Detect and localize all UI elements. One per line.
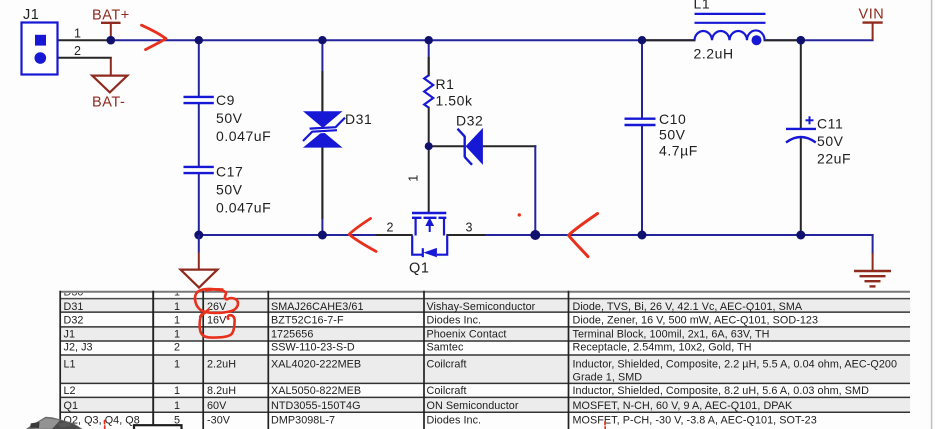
svg-text:Q1: Q1	[64, 400, 79, 412]
svg-text:XAL5050-822MEB: XAL5050-822MEB	[271, 385, 361, 397]
svg-text:22uF: 22uF	[817, 151, 851, 167]
red dot annotation	[518, 213, 521, 216]
resistor R1	[424, 75, 473, 108]
svg-text:-30V: -30V	[207, 414, 231, 426]
svg-text:D31: D31	[345, 111, 372, 127]
red arrow at BAT+	[142, 25, 167, 49]
ground (right earth GND)	[854, 253, 891, 286]
inductor L1	[694, 0, 766, 62]
svg-text:2.2uH: 2.2uH	[207, 359, 236, 371]
svg-text:Vishay-Semiconductor: Vishay-Semiconductor	[427, 301, 536, 313]
power flag BAT+	[92, 8, 130, 41]
wire: top rail (net)	[111, 39, 695, 41]
svg-text:2.2uH: 2.2uH	[694, 46, 734, 62]
svg-text:L1: L1	[694, 0, 711, 12]
svg-text:MOSFET, N-CH, 60 V, 9 A, AEC-Q: MOSFET, N-CH, 60 V, 9 A, AEC-Q101, DPAK	[573, 400, 794, 412]
row fills	[60, 299, 910, 311]
svg-text:3: 3	[466, 221, 474, 235]
connector J1	[22, 7, 82, 75]
svg-text:50V: 50V	[817, 133, 844, 149]
wire: R1 to node	[428, 108, 430, 146]
svg-text:0.047uF: 0.047uF	[216, 200, 271, 216]
svg-text:Inductor, Shielded, Composite,: Inductor, Shielded, Composite, 8.2 uH, 5…	[573, 385, 870, 397]
svg-text:C11: C11	[817, 116, 843, 132]
svg-text:NTD3055-150T4G: NTD3055-150T4G	[271, 400, 361, 412]
wire: node to D32	[429, 145, 464, 147]
wire: gate stem	[428, 146, 430, 213]
J1 body	[22, 23, 58, 75]
svg-text:Phoenix Contact: Phoenix Contact	[427, 329, 507, 341]
wire: J1 pin2 stub	[46, 57, 111, 59]
wire: L1 left stub	[645, 39, 695, 41]
junction: top rail at C11/VIN branch	[797, 36, 806, 45]
svg-text:Grade 1, SMD: Grade 1, SMD	[573, 372, 643, 384]
screen right edge line	[931, 0, 933, 429]
white box bottom edge	[134, 425, 182, 429]
svg-text:Diodes Inc.: Diodes Inc.	[427, 315, 482, 327]
dark photo blob bottom-left	[26, 417, 82, 429]
svg-text:ON Semiconductor: ON Semiconductor	[427, 400, 519, 412]
wire: C9 to C17	[198, 104, 200, 166]
junction: bottom rail at C11 branch	[796, 231, 805, 240]
vertical grid lines	[59, 291, 61, 429]
red circle around 26V	[195, 289, 238, 313]
svg-text:50V: 50V	[216, 182, 243, 198]
svg-text:DMP3098L-7: DMP3098L-7	[271, 414, 335, 426]
wire: D32 to right corner	[483, 145, 535, 147]
svg-text:Diode, TVS, Bi, 26 V, 42.1 Vc,: Diode, TVS, Bi, 26 V, 42.1 Vc, AEC-Q101,…	[573, 301, 803, 313]
wire: D31 lower pin stub	[321, 147, 323, 218]
svg-text:J2, J3: J2, J3	[64, 341, 93, 353]
wire: D31 to bottom rail	[321, 147, 323, 235]
svg-text:2: 2	[74, 44, 82, 58]
capacitor C11 (polarized)	[786, 116, 851, 167]
junction: bottom rail at C10 branch	[638, 231, 647, 240]
sliver row (bottom of previous row, cut by schematic)	[64, 286, 181, 298]
wire: top rail to C9	[198, 40, 200, 96]
svg-text:1: 1	[74, 27, 82, 41]
svg-text:SSW-110-23-S-D: SSW-110-23-S-D	[271, 341, 355, 353]
svg-text:VIN: VIN	[859, 7, 885, 23]
svg-text:J1: J1	[23, 7, 39, 23]
junction: top rail at C9 branch	[195, 36, 203, 44]
svg-text:Terminal Block, 100mil, 2x1, 6: Terminal Block, 100mil, 2x1, 6A, 63V, TH	[573, 329, 770, 341]
wire: C11 to bottom rail	[800, 137, 802, 235]
svg-text:Inductor, Shielded, Composite,: Inductor, Shielded, Composite, 2.2 µH, 5…	[573, 359, 898, 371]
svg-text:BAT-: BAT-	[92, 95, 125, 111]
junction: bottom rail at C17/GND branch	[194, 231, 203, 240]
wire: Q1 pin2 stub	[377, 234, 412, 236]
svg-text:Samtec: Samtec	[427, 341, 464, 353]
junction: top rail at D31 branch	[318, 36, 326, 44]
wire: J1 pin1 stub	[46, 39, 111, 41]
power flag VIN	[859, 7, 885, 41]
node: R1/D32/Q1-gate junction	[425, 142, 433, 150]
red dotted line bottom-middle	[604, 422, 606, 425]
svg-text:Q1: Q1	[409, 261, 429, 277]
wire: bottom rail right	[447, 234, 872, 236]
svg-text:1: 1	[174, 301, 180, 313]
TVS diode D31	[302, 111, 372, 148]
svg-text:Receptacle, 2.54mm, 10x2, Gold: Receptacle, 2.54mm, 10x2, Gold, TH	[573, 341, 752, 353]
wire: top rail to R1	[428, 40, 430, 75]
svg-text:1: 1	[407, 174, 421, 182]
wire: right ground drop	[872, 235, 874, 253]
wire: top rail to D31 anode	[321, 40, 323, 111]
J1 pin 1 (square pad)	[35, 35, 46, 46]
svg-text:2: 2	[174, 341, 180, 353]
junction: bottom rail at D31 branch	[318, 231, 327, 240]
wire: bottom rail left	[199, 234, 412, 236]
wire: R1 upper pin stub	[428, 58, 430, 75]
red arrow left of Q1	[349, 219, 376, 252]
wire: Q1 pin3 stub	[447, 234, 484, 236]
svg-text:XAL4020-222MEB: XAL4020-222MEB	[271, 359, 361, 371]
svg-text:D31: D31	[64, 301, 84, 313]
ground (left triangle GND)	[181, 235, 218, 288]
red dotted line bottom-left	[104, 421, 106, 424]
svg-text:Coilcraft: Coilcraft	[427, 385, 467, 397]
svg-text:2: 2	[387, 221, 395, 235]
svg-text:D32: D32	[64, 315, 84, 327]
wire: right corner down to bottom rail	[534, 146, 536, 235]
wire: C17 to bottom rail	[198, 174, 200, 235]
wire: top rail right of L1	[765, 39, 873, 41]
svg-text:MOSFET, P-CH, -30 V, -3.8 A, A: MOSFET, P-CH, -30 V, -3.8 A, AEC-Q101, S…	[573, 414, 817, 426]
svg-text:C9: C9	[216, 92, 235, 108]
svg-text:D32: D32	[456, 113, 483, 129]
junction: top rail at R1 branch	[425, 36, 433, 44]
svg-text:50V: 50V	[216, 110, 243, 126]
power flag BAT-	[92, 58, 127, 111]
svg-text:SMAJ26CAHE3/61: SMAJ26CAHE3/61	[271, 301, 364, 313]
svg-text:R1: R1	[436, 76, 455, 92]
svg-text:1725656: 1725656	[271, 329, 313, 341]
svg-text:1: 1	[174, 400, 180, 412]
svg-text:L2: L2	[64, 385, 76, 397]
svg-text:Coilcraft: Coilcraft	[427, 359, 467, 371]
svg-text:BAT+: BAT+	[92, 8, 130, 24]
red arrow right of node	[569, 214, 598, 257]
transistor Q1 (N-MOSFET)	[387, 213, 474, 277]
red circle around 16V	[200, 314, 235, 338]
wire: C10 to bottom rail	[641, 126, 643, 235]
svg-text:16V: 16V	[207, 315, 227, 327]
svg-text:L1: L1	[64, 359, 76, 371]
svg-text:0.047uF: 0.047uF	[216, 128, 271, 144]
capacitor C10	[625, 111, 698, 159]
horizontal grid lines	[60, 291, 910, 293]
capacitor C9	[184, 92, 272, 144]
svg-text:50V: 50V	[659, 127, 686, 143]
svg-text:C17: C17	[216, 164, 243, 180]
svg-text:1: 1	[174, 359, 180, 371]
J1 pin 2 (round pad)	[35, 52, 47, 64]
svg-text:60V: 60V	[207, 400, 227, 412]
wire: top rail to C11	[800, 40, 802, 128]
svg-text:8.2uH: 8.2uH	[207, 385, 236, 397]
svg-text:C10: C10	[659, 111, 686, 127]
svg-text:1.50k: 1.50k	[436, 93, 473, 109]
svg-text:1: 1	[174, 329, 180, 341]
svg-text:BZT52C16-7-F: BZT52C16-7-F	[271, 315, 344, 327]
zener diode D32	[456, 113, 483, 165]
svg-text:4.7µF: 4.7µF	[659, 143, 698, 159]
junction: top rail at C10 branch	[638, 36, 646, 44]
junction: bottom rail at D32 return branch	[530, 230, 540, 240]
svg-text:J1: J1	[64, 329, 76, 341]
svg-text:1: 1	[174, 385, 180, 397]
wire: L1 right stub	[765, 39, 796, 41]
svg-text:1: 1	[174, 315, 180, 327]
wire: D31 upper pin stub	[321, 72, 323, 112]
svg-text:Diode, Zener, 16 V, 500 mW, AE: Diode, Zener, 16 V, 500 mW, AEC-Q101, SO…	[573, 315, 819, 327]
node BAT+ junction	[107, 36, 116, 45]
wire: top rail to C10	[641, 40, 643, 118]
capacitor C17	[184, 164, 272, 216]
svg-text:Diodes Inc.: Diodes Inc.	[427, 414, 482, 426]
